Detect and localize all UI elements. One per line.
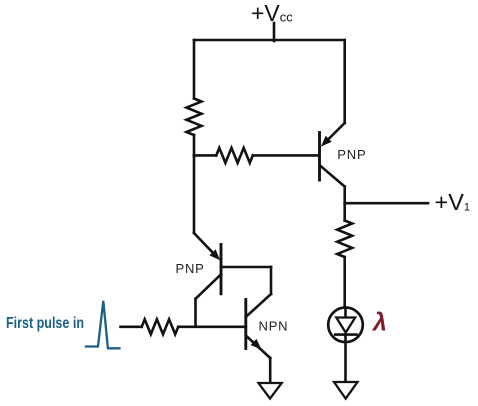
node A junction <box>193 154 196 157</box>
ground left <box>259 383 282 399</box>
wire R4 to node B <box>178 325 246 328</box>
transistor Q1 PNP <box>320 123 345 203</box>
wire input lead <box>121 325 142 328</box>
wire left vertical from rail to R1 <box>193 40 196 99</box>
wire R3 to LED <box>343 257 346 308</box>
wire node A down to Q2 emitter <box>193 155 196 233</box>
wire R2 to Q1 base <box>253 154 318 157</box>
svg-text:NPN: NPN <box>259 318 289 333</box>
resistor R3 <box>337 221 352 258</box>
transistor Q2 PNP <box>194 233 271 327</box>
svg-text:First pulse in: First pulse in <box>6 315 84 332</box>
wire top rail <box>194 39 345 42</box>
resistor R1 <box>187 99 202 136</box>
wire output node to +V1 <box>345 202 428 205</box>
wire node to R3 <box>343 203 346 220</box>
ground right <box>334 382 358 399</box>
resistor R2 <box>216 148 253 163</box>
svg-text:PNP: PNP <box>337 147 366 162</box>
transistor Q3 NPN <box>246 294 271 383</box>
wire node A to R2 <box>194 154 216 157</box>
LED D1 <box>328 308 363 383</box>
svg-text:PNP: PNP <box>176 261 205 276</box>
wire right vertical rail to Q1 emitter <box>343 40 346 123</box>
resistor R4 <box>142 319 179 334</box>
pulse waveform <box>86 301 120 349</box>
node Vcc stub <box>273 23 276 41</box>
svg-text:λ: λ <box>371 309 387 337</box>
wire R1 to node A <box>193 135 196 155</box>
